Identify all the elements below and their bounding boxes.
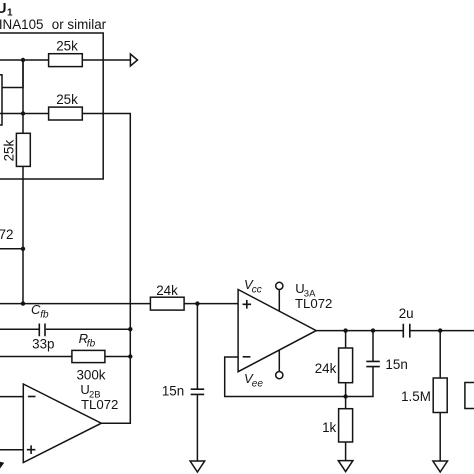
wire: U2B inverting input (y=396.6) <box>0 396 23 398</box>
U2B plus sign <box>27 445 36 454</box>
wire: U1 lower output (y=113.5) right then down to U2B output node <box>0 114 130 424</box>
svg-text:TL072: TL072 <box>0 227 13 242</box>
capacitor 2u plates <box>403 324 410 338</box>
wire: node at (23,60) down and left to op-amp block <box>2 60 23 88</box>
svg-text:15n: 15n <box>162 384 184 399</box>
svg-text:cc: cc <box>252 285 262 296</box>
svg-text:33p: 33p <box>32 336 54 351</box>
svg-text:25k: 25k <box>56 92 78 107</box>
junction dot (130.3,329.2) <box>128 327 132 331</box>
junction dot (130.3,356.5) <box>128 354 132 358</box>
wire: U1 upper output to arrow terminal (y=60) <box>0 59 130 61</box>
U3A Vee pin circle <box>276 372 283 379</box>
svg-text:25k: 25k <box>56 39 78 54</box>
svg-text:INA105: INA105 <box>0 17 43 32</box>
resistor 24k (vertical, U3A feedback divider) <box>339 348 353 383</box>
junction dot (23,248.8) <box>21 247 25 251</box>
label Vcc <box>244 277 262 296</box>
ground symbol at bottom-left (cut off) <box>0 462 3 468</box>
junction dot (197.4,303.6) <box>195 301 199 305</box>
U2B minus sign <box>28 396 36 398</box>
svg-text:24k: 24k <box>156 283 178 298</box>
resistor Rfb 300k <box>72 350 105 362</box>
wire: vertical bus x=23 from node (23,60) down to node (23,303.6) <box>22 60 24 304</box>
junction dot (373,330.6) <box>371 328 375 332</box>
svg-text:fb: fb <box>87 338 96 349</box>
capacitor 15n (U3A feedback) plates <box>366 361 380 366</box>
junction dot (345.6,396.5) <box>343 394 347 398</box>
op-amp U2B triangle <box>23 384 101 463</box>
svg-text:1k: 1k <box>322 420 336 435</box>
resistor 25k (upper, horizontal) <box>49 54 83 67</box>
wire: 24k/1k divider vertical at x=345.6 <box>345 331 347 461</box>
wire: 15n (feedback) top stub at x=373 <box>372 331 374 361</box>
U3A minus sign <box>243 356 251 358</box>
svg-text:U: U <box>0 1 6 17</box>
resistor 1k <box>339 409 353 442</box>
label U2B <box>80 382 100 401</box>
capacitor Cfb 33p plates <box>39 324 45 337</box>
junction dot (23,303.6) <box>21 301 25 305</box>
label U1 <box>0 1 13 19</box>
svg-text:TL072: TL072 <box>81 397 118 412</box>
wire: U2B non-inverting input (y=449.7) <box>0 449 23 451</box>
resistor 25k (vertical, inside U1) <box>16 133 30 166</box>
svg-text:15n: 15n <box>385 357 407 372</box>
resistor 24k (horizontal, summing) <box>150 297 184 310</box>
IC U1 package outline box <box>0 33 103 179</box>
output arrow terminal <box>130 54 137 66</box>
wire: 1.5M vertical at x=440.2 <box>439 331 441 461</box>
svg-text:24k: 24k <box>315 361 337 376</box>
svg-text:1.5M: 1.5M <box>401 389 431 404</box>
junction dot (23,60) <box>21 58 25 62</box>
junction dot (345.6,330.6) <box>343 328 347 332</box>
wire: summing net y=303.6 from left edge to U3A + input <box>0 303 238 305</box>
label Rfb <box>79 331 96 349</box>
junction dot (23,113.5) <box>21 111 25 115</box>
op-amp U3A triangle <box>238 290 316 372</box>
wire: Rfb branch (y=356.5) <box>0 356 130 358</box>
svg-text:TL072: TL072 <box>295 296 332 311</box>
ground symbol under 15n shunt <box>190 461 205 472</box>
U3A Vee pin line <box>278 350 280 372</box>
svg-text:or similar: or similar <box>52 17 107 32</box>
resistor 25k (lower, horizontal) <box>49 107 83 120</box>
U3A Vcc pin circle <box>276 282 283 289</box>
svg-text:ee: ee <box>252 379 264 390</box>
ground symbol under 1k <box>338 461 353 472</box>
junction dot (440.2,330.6) <box>438 328 442 332</box>
U3A Vcc pin line <box>278 289 280 311</box>
wire: U3A output rail to 2u cap and on to right edge <box>316 330 474 332</box>
wire: U2A output (off-canvas) to node (23,248.8) <box>0 248 23 250</box>
label Vee <box>244 371 263 390</box>
wire: U3A feedback loop from - input down and right to 15n bottom <box>225 357 373 397</box>
ground symbol under 1.5M <box>433 461 448 472</box>
svg-text:25k: 25k <box>1 140 16 162</box>
capacitor 15n (shunt) plates <box>191 389 205 394</box>
resistor 1.5M <box>433 378 447 413</box>
wire: 15n (shunt) vertical at x=197.4 with cap gap <box>196 304 198 461</box>
op-amp inside U1 (cut off at left edge) <box>0 75 2 125</box>
resistor at right edge (cut off) <box>465 383 474 409</box>
wire: Cfb branch (y=329.2) <box>0 328 130 330</box>
svg-text:fb: fb <box>40 309 49 320</box>
label U3A <box>295 281 316 300</box>
U3A plus sign <box>243 300 252 309</box>
svg-text:2u: 2u <box>399 306 414 321</box>
label Cfb <box>31 302 49 321</box>
svg-text:300k: 300k <box>76 367 105 382</box>
